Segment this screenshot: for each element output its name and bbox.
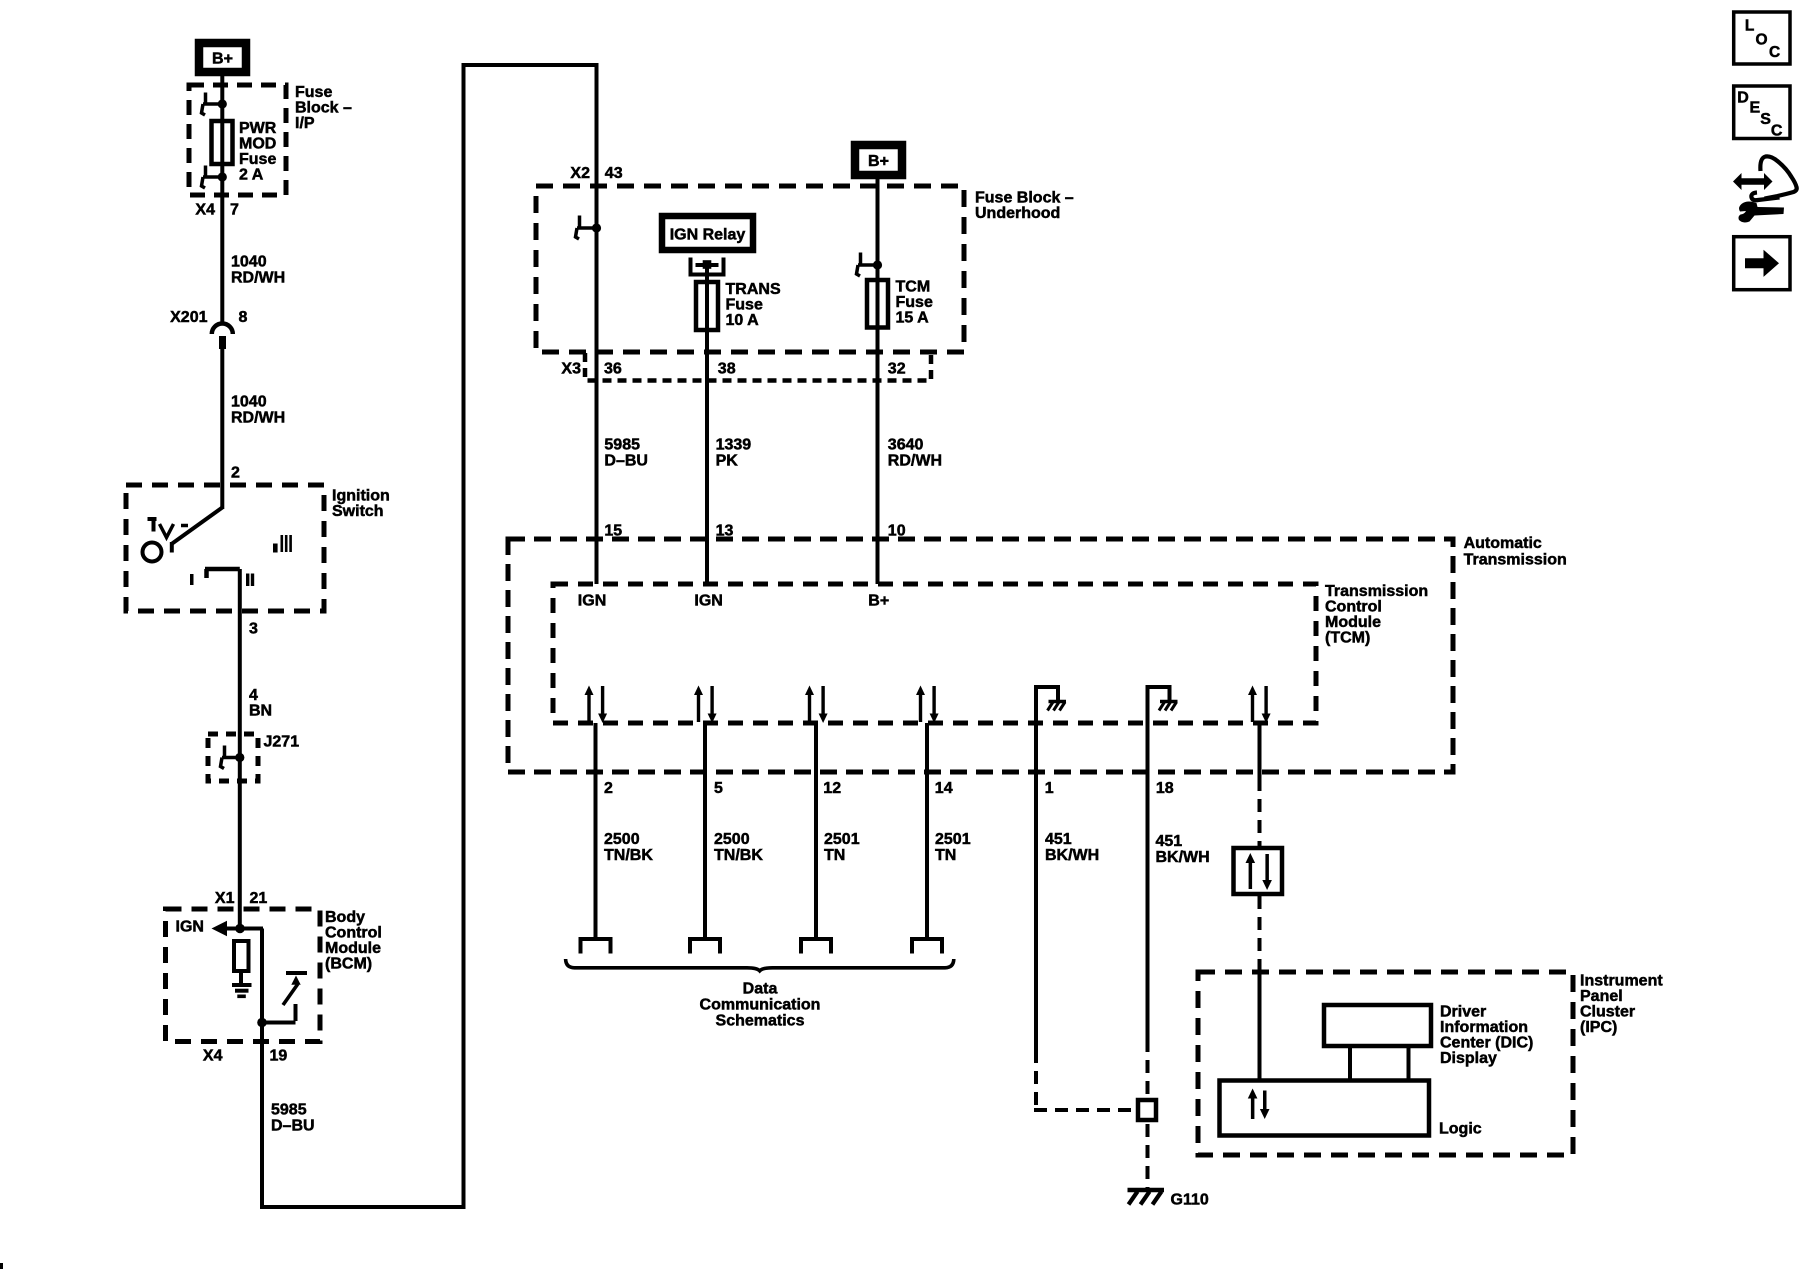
svg-text:21: 21 [250, 890, 268, 907]
svg-text:Control: Control [1325, 599, 1382, 616]
svg-text:E: E [1750, 100, 1761, 117]
svg-text:C: C [1771, 123, 1783, 140]
svg-text:14: 14 [935, 780, 953, 797]
svg-text:1: 1 [1045, 780, 1054, 797]
svg-text:Fuse: Fuse [896, 294, 933, 311]
svg-text:7: 7 [230, 202, 239, 219]
svg-text:IGN: IGN [176, 919, 204, 936]
svg-text:Panel: Panel [1580, 988, 1623, 1005]
svg-text:RD/WH: RD/WH [231, 410, 285, 427]
svg-text:Driver: Driver [1440, 1004, 1486, 1021]
svg-text:BN: BN [249, 703, 272, 720]
svg-text:Communication: Communication [700, 997, 821, 1014]
svg-text:TN/BK: TN/BK [604, 847, 653, 864]
svg-text:BK/WH: BK/WH [1045, 847, 1099, 864]
svg-text:12: 12 [823, 780, 841, 797]
svg-text:PWR: PWR [239, 120, 277, 137]
svg-text:G110: G110 [1171, 1192, 1209, 1209]
svg-text:18: 18 [1156, 780, 1174, 797]
svg-text:Center (DIC): Center (DIC) [1440, 1035, 1533, 1052]
svg-text:X3: X3 [561, 361, 581, 378]
svg-text:3: 3 [249, 621, 258, 638]
svg-text:2501: 2501 [824, 831, 860, 848]
svg-text:TCM: TCM [896, 279, 931, 296]
svg-text:19: 19 [270, 1048, 288, 1065]
svg-text:4: 4 [249, 687, 258, 704]
svg-text:D: D [1737, 90, 1749, 107]
svg-text:IGN: IGN [578, 593, 606, 610]
svg-text:X201: X201 [170, 309, 207, 326]
svg-text:B+: B+ [868, 593, 889, 610]
svg-text:X4: X4 [203, 1048, 223, 1065]
svg-text:1339: 1339 [716, 437, 752, 454]
svg-text:RD/WH: RD/WH [231, 270, 285, 287]
svg-text:Block –: Block – [295, 100, 352, 117]
svg-text:Display: Display [1440, 1050, 1497, 1067]
svg-text:2: 2 [231, 465, 240, 482]
svg-text:Body: Body [325, 909, 365, 926]
svg-text:TN/BK: TN/BK [714, 847, 763, 864]
svg-text:36: 36 [604, 361, 622, 378]
svg-text:5: 5 [714, 780, 723, 797]
svg-text:I/P: I/P [295, 115, 315, 132]
svg-text:Ignition: Ignition [332, 488, 390, 505]
svg-text:Information: Information [1440, 1019, 1528, 1036]
svg-text:10 A: 10 A [726, 312, 760, 329]
svg-text:B+: B+ [868, 153, 889, 170]
svg-text:TRANS: TRANS [726, 281, 781, 298]
svg-text:C: C [1769, 44, 1780, 61]
svg-text:Underhood: Underhood [975, 205, 1060, 222]
svg-text:TN: TN [824, 847, 845, 864]
svg-text:Switch: Switch [332, 503, 384, 520]
svg-text:D–BU: D–BU [271, 1118, 315, 1135]
svg-text:S: S [1760, 111, 1771, 128]
svg-text:2 A: 2 A [239, 167, 264, 184]
svg-text:Data: Data [743, 981, 778, 998]
svg-text:Transmission: Transmission [1464, 552, 1567, 569]
svg-text:2501: 2501 [935, 831, 971, 848]
svg-text:(BCM): (BCM) [325, 956, 372, 973]
svg-text:Logic: Logic [1439, 1121, 1482, 1138]
svg-text:BK/WH: BK/WH [1156, 849, 1210, 866]
svg-text:13: 13 [716, 523, 734, 540]
svg-text:L: L [1745, 18, 1754, 35]
svg-text:X2: X2 [570, 165, 590, 182]
svg-text:Schematics: Schematics [716, 1013, 805, 1030]
svg-text:1040: 1040 [231, 254, 267, 271]
svg-text:Cluster: Cluster [1580, 1004, 1635, 1021]
svg-text:IGN: IGN [694, 593, 722, 610]
svg-text:MOD: MOD [239, 136, 276, 153]
svg-text:X4: X4 [195, 202, 215, 219]
svg-text:B+: B+ [212, 51, 233, 68]
svg-text:2500: 2500 [714, 831, 750, 848]
svg-text:10: 10 [888, 523, 906, 540]
svg-text:RD/WH: RD/WH [888, 453, 942, 470]
svg-text:2500: 2500 [604, 831, 640, 848]
svg-text:451: 451 [1045, 831, 1072, 848]
svg-text:5985: 5985 [271, 1102, 307, 1119]
svg-text:J271: J271 [264, 734, 300, 751]
svg-text:Control: Control [325, 925, 382, 942]
svg-text:38: 38 [718, 361, 736, 378]
svg-text:Module: Module [325, 940, 381, 957]
svg-text:TN: TN [935, 847, 956, 864]
svg-text:X1: X1 [215, 890, 235, 907]
svg-text:3640: 3640 [888, 437, 924, 454]
svg-text:O: O [1756, 32, 1768, 49]
svg-text:IGN Relay: IGN Relay [670, 227, 746, 244]
svg-text:15 A: 15 A [896, 310, 930, 327]
svg-text:Automatic: Automatic [1464, 535, 1542, 552]
svg-text:Fuse: Fuse [239, 151, 276, 168]
svg-text:451: 451 [1156, 833, 1183, 850]
svg-text:2: 2 [604, 780, 613, 797]
svg-text:Instrument: Instrument [1580, 973, 1663, 990]
svg-text:(IPC): (IPC) [1580, 1019, 1617, 1036]
svg-text:43: 43 [605, 165, 623, 182]
svg-text:Fuse Block –: Fuse Block – [975, 190, 1074, 207]
svg-text:Transmission: Transmission [1325, 583, 1428, 600]
svg-text:PK: PK [716, 453, 739, 470]
svg-text:32: 32 [888, 361, 906, 378]
svg-text:Module: Module [1325, 614, 1381, 631]
svg-text:Fuse: Fuse [295, 84, 332, 101]
svg-text:Fuse: Fuse [726, 297, 763, 314]
svg-text:8: 8 [239, 309, 248, 326]
svg-text:(TCM): (TCM) [1325, 630, 1370, 647]
svg-text:15: 15 [604, 523, 622, 540]
svg-text:1040: 1040 [231, 394, 267, 411]
svg-text:D–BU: D–BU [604, 453, 648, 470]
svg-text:5985: 5985 [604, 437, 640, 454]
